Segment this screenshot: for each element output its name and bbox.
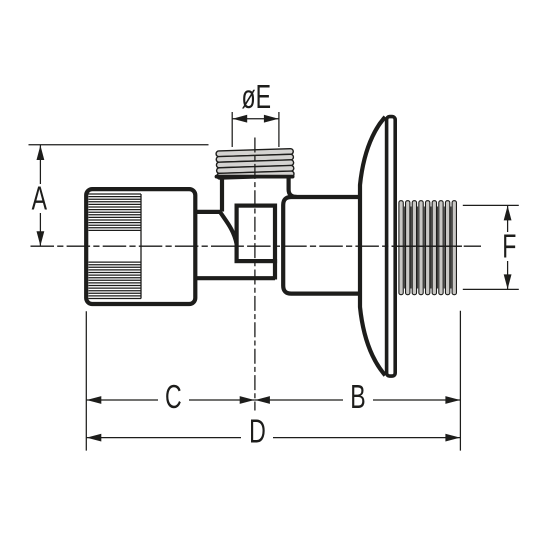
bonnet right edge extension: [273, 259, 277, 280]
dimension oE arrow left: [233, 115, 248, 123]
dimension A line: [39, 145, 41, 246]
dimension F arrow down: [504, 274, 512, 289]
valve neck top line: [195, 210, 220, 214]
dimension F line: [507, 205, 509, 289]
label F: [498, 232, 519, 261]
dimension B arrow right: [445, 396, 460, 404]
dimension A arrow up: [37, 145, 45, 160]
vertical centerline: [254, 138, 256, 411]
body fillet curve neck to bonnet: [220, 212, 237, 244]
dimension F arrow up: [504, 206, 512, 221]
right extension line: [459, 311, 461, 451]
knurl boundary line: [140, 194, 142, 299]
svg-text:D: D: [249, 414, 266, 451]
dimension oE extension lines: [231, 112, 233, 147]
horizontal centerline: [31, 245, 482, 247]
left extension line: [85, 311, 87, 450]
dimension A arrow down: [37, 231, 45, 246]
svg-text:C: C: [165, 379, 182, 416]
top port right wall with fillet into pipe: [289, 177, 297, 197]
label C: [158, 385, 189, 414]
thread root lines: [404, 207, 451, 289]
right male thread base: [398, 201, 460, 295]
knurling upper block: [89, 194, 142, 230]
wall flange bell fill: [360, 117, 385, 375]
svg-text:F: F: [502, 229, 516, 266]
dimension D line: [86, 437, 460, 439]
dimension C line: [86, 399, 254, 401]
outlet pipe to flange: [283, 197, 359, 294]
svg-text:A: A: [32, 181, 47, 218]
dimension B line: [255, 399, 461, 401]
label B: [343, 384, 373, 414]
dimension C arrow right: [240, 396, 255, 404]
wall flange bell profile: [360, 117, 385, 375]
label A: [29, 184, 51, 213]
dimension F extension lines: [463, 204, 519, 206]
flange plate: [387, 117, 396, 377]
top threads (male thread, top port): [216, 149, 294, 180]
dimension oE line: [232, 118, 279, 120]
label D: [241, 420, 273, 449]
dimension D arrow left: [87, 434, 102, 442]
dimension D arrow right: [445, 434, 460, 442]
valve neck bottom line: [195, 276, 275, 280]
dimension B arrow left: [255, 396, 270, 404]
dimension C arrow left: [87, 396, 102, 404]
dimension A extension line top: [29, 144, 209, 146]
centerline solid over threads: [392, 245, 462, 247]
dimension oE arrow right: [264, 115, 279, 123]
top port left wall: [220, 177, 224, 212]
handwheel knob: [86, 189, 195, 304]
shoulder under top threads: [217, 175, 293, 179]
svg-text:B: B: [350, 379, 365, 416]
right thread strands: [399, 201, 457, 295]
svg-text:øE: øE: [242, 79, 272, 116]
bonnet square: [237, 206, 275, 262]
knurling lower block: [89, 262, 142, 298]
